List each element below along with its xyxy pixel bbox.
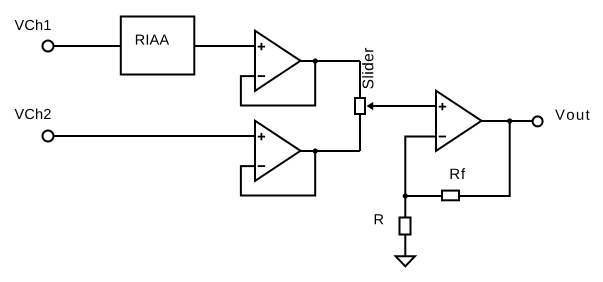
wire U2 feedback <box>241 151 315 196</box>
wire U3 output to Rf <box>460 121 510 196</box>
wire VCh2 to U2 noninverting input <box>54 135 257 137</box>
potentiometer slider body <box>355 98 365 114</box>
wire U3 output <box>482 120 533 122</box>
op-amp U2 <box>255 121 301 181</box>
wire junction to R <box>404 196 406 217</box>
wire U1 feedback <box>241 61 315 106</box>
wire R to ground <box>404 235 406 257</box>
junction feedback node <box>403 193 408 198</box>
label VCh1 <box>15 20 51 31</box>
junction U1 output <box>313 58 318 63</box>
wire U3 inverting input to junction <box>405 137 436 197</box>
op-amp U3 <box>436 91 482 151</box>
wire RIAA to U1 noninverting input <box>194 45 256 47</box>
resistor R <box>400 218 411 235</box>
junction U2 output <box>313 148 318 153</box>
label Slider <box>362 48 373 89</box>
label VCh2 <box>15 109 51 120</box>
ground <box>396 256 415 266</box>
label Vout <box>555 110 590 120</box>
wire VCh1 to RIAA <box>54 45 122 47</box>
wire Rf to junction <box>405 195 441 197</box>
label R <box>375 214 384 224</box>
wire U2 output <box>301 150 361 152</box>
block RIAA <box>121 17 195 75</box>
wire U1 output <box>301 60 361 62</box>
resistor Rf <box>442 191 459 201</box>
terminal Vout <box>533 116 543 126</box>
wire U2 output to slider bottom <box>359 115 361 151</box>
label Rf <box>451 168 466 179</box>
op-amp U1 <box>255 31 301 91</box>
potentiometer wiper arrow <box>367 102 374 110</box>
terminal VCh2 <box>43 131 54 142</box>
junction U3 output <box>507 118 512 123</box>
terminal VCh1 <box>43 41 54 52</box>
wire wiper to U3 noninverting input <box>373 105 437 107</box>
wire U1 output to slider top <box>359 61 361 97</box>
label RIAA <box>136 35 169 45</box>
